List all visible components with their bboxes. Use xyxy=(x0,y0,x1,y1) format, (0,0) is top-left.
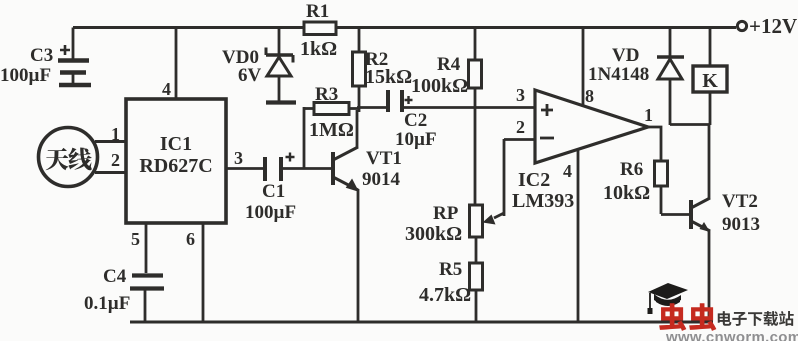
svg-text:C2: C2 xyxy=(404,110,427,131)
svg-text:5: 5 xyxy=(131,229,140,249)
wire: IC2 pin 4 to ground rail xyxy=(577,150,580,322)
watermark: graduation cap logo xyxy=(648,283,689,314)
svg-text:VT2: VT2 xyxy=(722,191,758,212)
svg-text:1MΩ: 1MΩ xyxy=(309,119,354,141)
svg-text:K: K xyxy=(702,70,718,92)
wire: antenna to IC1 pin 2 xyxy=(95,150,126,173)
transistor VT2 9013 (NPN) xyxy=(691,125,760,322)
svg-text:1: 1 xyxy=(111,124,120,144)
svg-text:10kΩ: 10kΩ xyxy=(603,182,650,204)
capacitor C2 10µF xyxy=(357,90,535,150)
resistor R3 1MΩ xyxy=(304,84,359,168)
resistor R4 100kΩ xyxy=(411,28,482,206)
wire: IC2 pin 1 output to R6 xyxy=(648,127,661,161)
svg-text:3: 3 xyxy=(234,148,243,168)
wire: +12V top supply rail xyxy=(73,26,736,29)
wire: IC2 pin 8 to supply rail xyxy=(582,28,585,108)
watermark: 电子下载站 xyxy=(718,311,794,326)
svg-text:6V: 6V xyxy=(238,65,262,86)
svg-text:R5: R5 xyxy=(439,259,462,280)
resistor R6 10kΩ xyxy=(603,159,689,215)
svg-text:1kΩ: 1kΩ xyxy=(300,38,337,60)
terminal +12V xyxy=(737,14,797,38)
svg-text:10µF: 10µF xyxy=(395,129,437,150)
svg-text:+12V: +12V xyxy=(749,14,797,38)
wire: VD anode to relay bottom junction xyxy=(670,123,710,126)
svg-text:C4: C4 xyxy=(103,266,127,287)
relay K coil xyxy=(693,28,727,126)
svg-text:100kΩ: 100kΩ xyxy=(411,75,468,97)
svg-text:RD627C: RD627C xyxy=(139,155,212,177)
svg-text:1N4148: 1N4148 xyxy=(588,64,649,85)
svg-text:C1: C1 xyxy=(262,181,285,202)
capacitor C1 100µF xyxy=(245,153,332,224)
wire: ground bottom rail xyxy=(130,321,713,324)
svg-text:9014: 9014 xyxy=(362,169,401,190)
resistor R1 1kΩ xyxy=(300,1,337,60)
wire: IC1 pin 3 output xyxy=(226,148,263,169)
svg-text:1: 1 xyxy=(644,105,653,125)
svg-text:0.1µF: 0.1µF xyxy=(84,293,130,314)
svg-text:LM393: LM393 xyxy=(512,190,574,212)
svg-text:2: 2 xyxy=(516,117,525,137)
svg-text:R1: R1 xyxy=(306,1,329,22)
svg-text:100µF: 100µF xyxy=(0,65,51,86)
svg-text:RP: RP xyxy=(433,203,459,224)
resistor R2 15kΩ xyxy=(353,28,413,113)
svg-text:4: 4 xyxy=(162,79,171,99)
potentiometer RP 300kΩ xyxy=(405,139,535,245)
svg-text:C3: C3 xyxy=(30,45,53,66)
svg-text:R3: R3 xyxy=(315,84,338,105)
svg-text:4.7kΩ: 4.7kΩ xyxy=(419,284,471,306)
antenna (天线) xyxy=(39,128,98,187)
zener diode VD0 6V xyxy=(222,28,296,103)
svg-text:VT1: VT1 xyxy=(366,148,402,169)
svg-text:3: 3 xyxy=(516,85,525,105)
svg-text:R6: R6 xyxy=(620,159,643,180)
resistor R5 4.7kΩ xyxy=(419,237,483,322)
svg-text:100µF: 100µF xyxy=(245,202,296,223)
svg-text:15kΩ: 15kΩ xyxy=(365,66,412,88)
capacitor C4 0.1µF xyxy=(84,266,164,322)
svg-text:4: 4 xyxy=(563,161,572,181)
diode VD 1N4148 xyxy=(588,28,684,126)
svg-text:9013: 9013 xyxy=(722,214,760,235)
wire: IC1 pin 5 xyxy=(131,223,146,273)
svg-text:R4: R4 xyxy=(437,54,461,75)
svg-text:IC2: IC2 xyxy=(518,169,550,191)
capacitor C3 100µF xyxy=(0,28,91,87)
svg-text:2: 2 xyxy=(111,150,120,170)
IC U1: IC1 RD627C box xyxy=(126,99,226,223)
svg-text:VD: VD xyxy=(612,45,639,66)
wire: antenna to IC1 pin 1 xyxy=(95,124,126,144)
svg-text:IC1: IC1 xyxy=(160,133,192,155)
wire: IC1 pin 6 to ground rail xyxy=(186,223,203,322)
transistor VT1 9014 (NPN) xyxy=(333,110,402,322)
svg-text:6: 6 xyxy=(186,229,195,249)
watermark: 虫虫 red logo xyxy=(659,303,716,331)
op-amp IC2 LM393 xyxy=(512,85,653,212)
svg-text:8: 8 xyxy=(585,86,594,106)
wire: IC1 pin 4 to supply rail xyxy=(162,28,176,100)
svg-text:300kΩ: 300kΩ xyxy=(405,223,462,245)
svg-text:www.cnworm.com: www.cnworm.com xyxy=(665,329,798,341)
